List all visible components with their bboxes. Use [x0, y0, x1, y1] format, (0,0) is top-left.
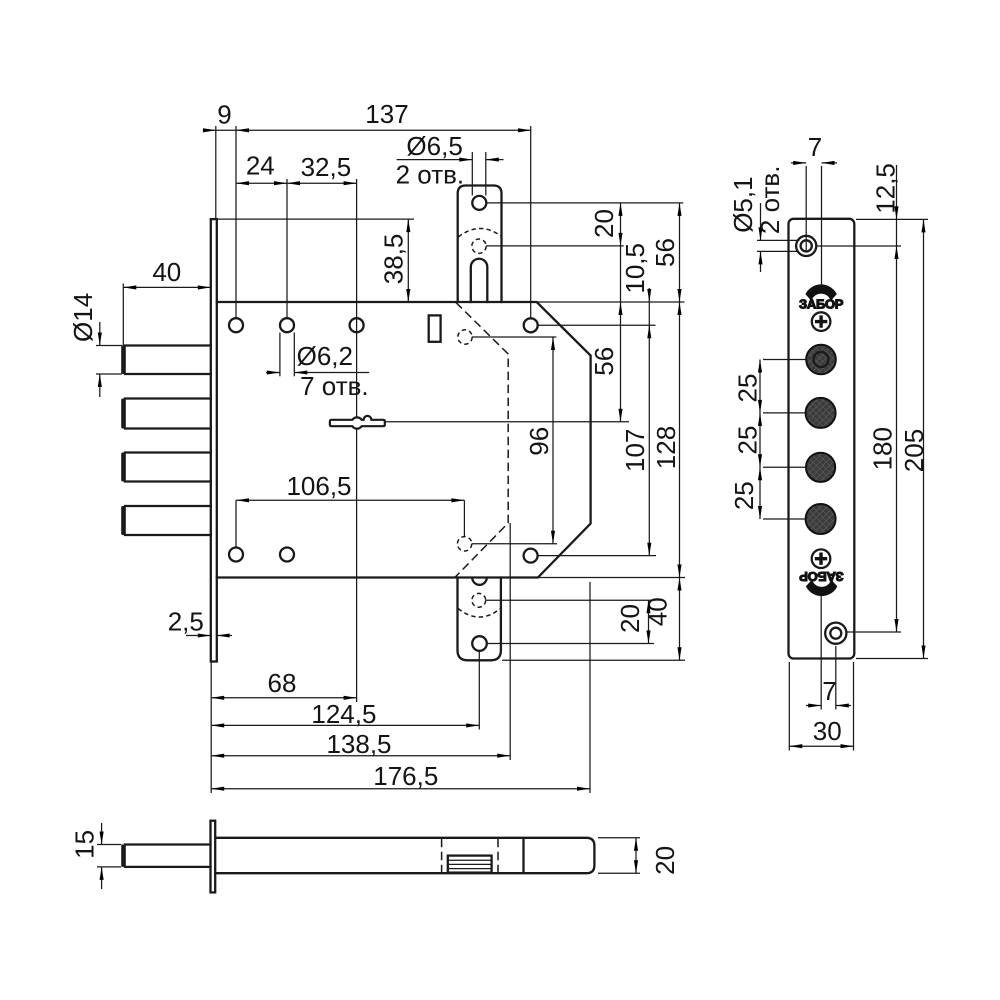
svg-text:106,5: 106,5 — [286, 471, 351, 501]
svg-text:68: 68 — [268, 668, 297, 698]
top tab hidden hole (dashed) — [472, 239, 486, 253]
dim 9 / 137 line — [203, 129, 531, 131]
svg-text:7 отв.: 7 отв. — [300, 371, 369, 401]
dim 10,5 / 107 line — [648, 288, 650, 556]
cam vertical centerline — [356, 179, 358, 702]
top strap tab — [458, 186, 502, 303]
screw 1 — [812, 312, 831, 331]
crossbar hole 2 (hatched) — [806, 398, 836, 428]
bolt side — [125, 845, 211, 867]
svg-text:124,5: 124,5 — [311, 699, 376, 729]
svg-text:10,5: 10,5 — [620, 243, 650, 294]
svg-text:128: 128 — [651, 426, 681, 469]
dim 176,5 — [211, 788, 590, 790]
cam axis extension to right — [385, 421, 629, 423]
svg-text:20: 20 — [650, 846, 680, 875]
bottom tab centerline tail — [478, 651, 480, 730]
svg-text:176,5: 176,5 — [373, 761, 438, 791]
crossbar hole 3 (hatched) — [806, 453, 835, 482]
body top edge extension — [537, 301, 685, 303]
top tab hole extension lines — [486, 202, 683, 204]
svg-text:56: 56 — [650, 238, 680, 267]
top tab hole — [472, 196, 486, 210]
BOTTOM VIEW — [69, 821, 680, 893]
dim 124,5 — [211, 724, 479, 726]
svg-text:56: 56 — [589, 347, 619, 376]
top screw hole (countersunk) — [796, 236, 816, 256]
svg-text:30: 30 — [813, 716, 842, 746]
svg-text:25: 25 — [729, 481, 759, 510]
svg-text:138,5: 138,5 — [326, 729, 391, 759]
svg-text:ЗАБОР: ЗАБОР — [799, 569, 844, 584]
dim 96 — [472, 336, 557, 338]
body bottom edge extension — [538, 577, 685, 579]
dim 25 x3 — [763, 359, 806, 361]
faceplate front — [789, 219, 855, 659]
crossbar hole 4 (hatched) — [806, 504, 836, 534]
internal line — [522, 839, 524, 872]
screw 2 — [812, 549, 831, 568]
svg-text:Ø14: Ø14 — [68, 293, 98, 342]
svg-text:32,5: 32,5 — [301, 152, 352, 182]
svg-text:15: 15 — [69, 830, 99, 859]
svg-text:96: 96 — [524, 427, 554, 456]
lock body outline — [217, 302, 591, 578]
top tab slot — [471, 259, 488, 302]
hidden holes (dashed) — [458, 330, 472, 344]
logo bottom (rotated) — [799, 569, 844, 595]
svg-text:180: 180 — [868, 427, 898, 470]
svg-text:20: 20 — [615, 604, 645, 633]
hidden pocket outline (dashed) — [455, 303, 508, 578]
svg-text:12,5: 12,5 — [870, 163, 900, 214]
bolt 3 — [125, 453, 211, 482]
bolt 1 — [125, 346, 211, 375]
bottom strap tab — [458, 578, 501, 661]
dim 30 — [788, 662, 790, 751]
svg-text:40: 40 — [152, 257, 181, 287]
body holes top row (Ø6.2) — [229, 318, 243, 332]
dim Ø6,5 2 отв. — [397, 159, 473, 161]
dim 106,5 — [236, 499, 464, 501]
dim 20 / 40 (bottom) — [486, 599, 654, 601]
hidden lines (dashed) — [441, 839, 443, 872]
svg-text:2 отв.: 2 отв. — [396, 160, 465, 190]
svg-text:20: 20 — [589, 209, 619, 238]
dim 205 — [856, 658, 928, 660]
dim 12,5 / 180 line — [856, 218, 928, 220]
MAIN VIEW — [68, 99, 685, 793]
top tab hidden arc (dashed) — [458, 228, 501, 237]
svg-text:Ø5,1: Ø5,1 — [728, 176, 758, 232]
bottom tab hole at edge (half) — [472, 578, 487, 585]
svg-text:137: 137 — [365, 99, 408, 129]
lock faceplate (front bar) — [211, 219, 217, 661]
dim Ø5,1 2 отв. — [757, 239, 800, 241]
RIGHT VIEW — [728, 132, 929, 751]
dim 7 (bottom) — [820, 595, 822, 710]
logo top — [799, 285, 844, 311]
bottom tab hidden arc (dashed) — [458, 609, 501, 618]
right hole extension lines — [538, 324, 655, 326]
faceplate side — [211, 821, 216, 893]
dim 40 (bolt) — [123, 286, 211, 288]
dim 24 / 32,5 line — [236, 182, 357, 184]
bolt 2 — [125, 399, 211, 429]
svg-text:Ø6,5: Ø6,5 — [406, 131, 462, 161]
crossbar hole 1 (hatched, with pin) — [806, 345, 836, 375]
small rectangular slot — [429, 315, 441, 341]
svg-text:25: 25 — [733, 374, 763, 403]
svg-text:ЗАБОР: ЗАБОР — [799, 297, 844, 312]
dim 68 — [211, 697, 356, 699]
dim Ø14 — [96, 345, 122, 347]
dim 2,5 — [186, 635, 211, 637]
svg-text:Ø6,2: Ø6,2 — [297, 341, 353, 371]
body holes bottom row (Ø6.2) — [229, 548, 243, 562]
svg-text:24: 24 — [246, 151, 275, 181]
dim 15 — [97, 844, 121, 846]
svg-text:7: 7 — [808, 132, 822, 162]
svg-text:107: 107 — [620, 429, 650, 472]
bottom tab hidden hole (dashed) — [472, 593, 486, 607]
spring block — [448, 856, 492, 873]
svg-text:7: 7 — [822, 676, 836, 706]
dim 20 (top) and 56 (cam) line — [620, 203, 622, 422]
bottom tab screw hole — [472, 636, 487, 651]
svg-text:205: 205 — [899, 429, 929, 472]
dim Ø6,2 7 отв. — [279, 333, 281, 377]
bottom screw hole (countersunk) — [825, 623, 846, 644]
dim 20 — [598, 837, 640, 839]
svg-text:2 отв.: 2 отв. — [755, 166, 785, 235]
svg-text:9: 9 — [217, 100, 231, 130]
bolt 4 — [125, 506, 211, 535]
dim 7 (top) — [791, 162, 806, 164]
key cylinder cam — [330, 416, 385, 429]
dim 138,5 — [211, 755, 510, 757]
svg-text:38,5: 38,5 — [379, 234, 409, 285]
svg-text:25: 25 — [733, 426, 763, 455]
body side — [215, 838, 594, 873]
dim 38,5 — [217, 218, 414, 220]
svg-text:2,5: 2,5 — [168, 607, 204, 637]
dim 56 / 128 / 40 line — [679, 203, 681, 660]
